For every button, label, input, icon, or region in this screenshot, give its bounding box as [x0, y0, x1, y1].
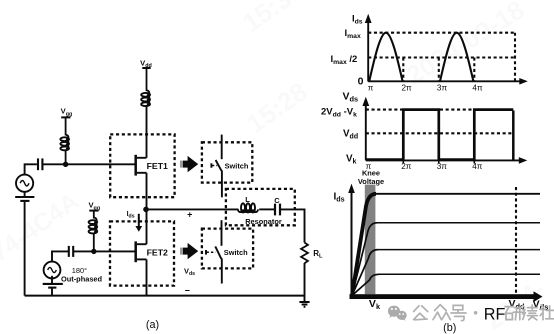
- glyph ZHONG: [433, 305, 450, 320]
- glyph DU: [522, 305, 537, 320]
- plot1 dashed vertical at 4pi: [473, 58, 475, 82]
- svg-text:Switch: Switch: [225, 161, 249, 170]
- plot3 y-axis: [348, 184, 355, 296]
- wire output node down to FET2 drain: [146, 209, 148, 244]
- glyph SHE: [540, 305, 554, 320]
- wire FET2 source down to bottom rail: [146, 259, 148, 295]
- ground (below V2): [43, 284, 63, 288]
- wire Vdd to drain choke: [146, 68, 148, 91]
- FET1 dashed box: [110, 134, 174, 197]
- resonator dashed box: [226, 189, 295, 225]
- svg-text:Switch: Switch: [224, 248, 248, 257]
- FET2 dashed box: [110, 221, 174, 285]
- block arrow 2 (FET2 to switch model): [180, 243, 198, 259]
- svg-text:4π: 4π: [472, 162, 483, 171]
- capacitor C (series): [275, 204, 280, 216]
- plot3 IV curve 2 flat: [377, 222, 540, 224]
- Vgg2 terminal bar: [89, 210, 98, 212]
- source V1 (AC sine source): [16, 175, 33, 192]
- svg-text:4π: 4π: [472, 83, 483, 92]
- svg-text:FET2: FET2: [147, 247, 168, 257]
- svg-text:FET1: FET1: [147, 161, 168, 171]
- switch2 dashed box: [202, 229, 253, 269]
- glyph HAO: [451, 305, 466, 320]
- inductor Ld (drain choke coil): [141, 91, 150, 107]
- ground (below V1): [15, 197, 34, 201]
- svg-text:Resonator: Resonator: [245, 217, 282, 226]
- svg-text:(a): (a): [146, 319, 159, 331]
- node output: [143, 207, 149, 213]
- wire cap1 to gate1 node: [42, 163, 65, 165]
- plot1 sine hump 1: [369, 33, 402, 82]
- wire Lg1 to gate1 node: [65, 150, 67, 165]
- svg-text:3π: 3π: [437, 162, 448, 171]
- svg-text:2π: 2π: [401, 162, 412, 171]
- inductor L (series coil): [238, 203, 258, 212]
- switch1 dashed box: [202, 142, 252, 182]
- plot2 dashed Vdd line: [366, 132, 514, 134]
- plot2 tick 4pi: [473, 157, 475, 163]
- wire gate1 node to FET1 gate: [66, 163, 135, 165]
- plot1 dashed Imax line: [368, 32, 515, 34]
- plot3 IV curve 4 rise: [352, 274, 379, 295]
- svg-text:−: −: [185, 286, 190, 296]
- svg-text:π: π: [368, 83, 374, 92]
- inductor Lg1 (gate choke coil): [60, 135, 69, 150]
- plot3 IV curve 4 flat: [379, 273, 540, 275]
- plot3 thick x-axis: [350, 291, 543, 302]
- plot1 x-axis: [368, 78, 528, 85]
- plot2 y-axis: [362, 97, 369, 161]
- wire Vgg1 to inductor Lg1: [65, 117, 67, 135]
- svg-text:2π: 2π: [401, 83, 412, 92]
- plot1 dashed vertical at 2pi: [402, 58, 404, 82]
- wire C to load corner: [280, 209, 305, 242]
- wire RL to ground: [304, 263, 306, 302]
- switch SW1: [211, 135, 222, 198]
- inductor Lg2 (gate choke coil): [89, 218, 98, 234]
- node gate2: [91, 249, 96, 254]
- plot2 tick 3pi: [438, 157, 440, 163]
- source V2 (180 deg out-phased): [44, 262, 61, 279]
- wire cap2 to gate2 node: [73, 250, 94, 252]
- plot2 tick 2pi: [402, 157, 404, 163]
- ground (bottom right): [299, 302, 309, 307]
- capacitor Cin1: [38, 158, 42, 170]
- wechat icon (watermark): [388, 306, 407, 321]
- plot1 sine hump 2: [440, 33, 473, 82]
- wire L to C: [259, 208, 274, 210]
- plot2 square wave: [366, 110, 513, 160]
- bottom rail wire: [25, 295, 305, 297]
- plot3 IV curve 3 rise: [352, 250, 378, 296]
- svg-text:Out-phased: Out-phased: [61, 275, 103, 284]
- watermark text 公众号 · RF研读社: [414, 305, 478, 321]
- svg-text:(b): (b): [443, 322, 456, 334]
- plot1 dashed Imax/2 line: [368, 56, 515, 58]
- svg-text:0: 0: [358, 76, 364, 88]
- wire FET1 source down to output node: [146, 173, 148, 210]
- transistor FET1: [136, 155, 147, 176]
- glyph GONG: [414, 306, 428, 320]
- middot separator: [474, 311, 478, 315]
- Ids arrow: [135, 214, 142, 232]
- Vdd terminal bar: [142, 67, 150, 69]
- plot1 dashed vertical right closure: [514, 33, 516, 82]
- svg-text:RF: RF: [484, 306, 506, 324]
- switch SW2: [206, 220, 222, 283]
- wire Vgg2 to coil: [93, 211, 95, 219]
- block arrow 1 (FET1 to switch model): [180, 156, 198, 172]
- capacitor Cin2: [69, 246, 73, 257]
- plot3 dashed vertical at Vdd: [515, 187, 517, 294]
- plot2 x-axis: [366, 157, 528, 164]
- wire drain choke to FET1 drain: [146, 105, 148, 158]
- wire Lg2 to gate2 node: [93, 233, 95, 252]
- glyph YAN: [505, 307, 522, 320]
- wire gate2 node to FET2 gate: [94, 250, 135, 252]
- plot2 dashed 2Vdd-Vk line: [366, 109, 514, 111]
- plot2 dashed vertical right closure: [512, 111, 515, 161]
- wire left rail V1 down to bottom rail: [24, 192, 26, 196]
- wire V1 top to input cap: [25, 164, 37, 174]
- plot3 knee gray band: [365, 185, 376, 295]
- plot1 y-axis: [365, 14, 372, 82]
- wire output rail to resonator: [146, 208, 238, 210]
- wire V2 down to bottom rail: [51, 276, 53, 283]
- plot1 dashed vertical at 3pi: [438, 58, 440, 82]
- wire V2 top to cap2: [52, 251, 68, 261]
- Vgg1 terminal bar: [61, 116, 70, 118]
- plot3 IV curve 1 rise: [352, 194, 376, 296]
- svg-text:3π: 3π: [437, 83, 448, 92]
- plot3 IV curve 2 rise: [352, 223, 377, 296]
- resistor RL: [301, 243, 308, 264]
- node gate1: [63, 162, 68, 167]
- transistor FET2: [136, 241, 147, 262]
- plot3 IV curve 1 flat: [376, 193, 540, 195]
- plot3 IV curve 3 flat: [378, 249, 540, 251]
- svg-text:+: +: [187, 209, 192, 219]
